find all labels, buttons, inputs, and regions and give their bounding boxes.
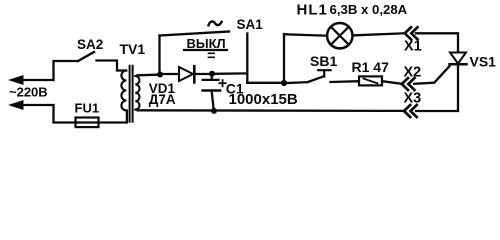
thyristor VS1 cathode lead	[457, 64, 459, 111]
wire node A riser to SA1	[158, 36, 160, 75]
svg-text:R1 47: R1 47	[352, 59, 390, 75]
svg-text:6,3В x 0,28А: 6,3В x 0,28А	[330, 2, 408, 17]
wire node B to SA1 riser	[215, 72, 247, 75]
transformer TV1 primary winding	[117, 71, 126, 111]
thyristor VS1 cathode bar	[450, 63, 467, 66]
svg-text:SA2: SA2	[77, 37, 103, 52]
capacitor C1 top lead	[211, 74, 213, 79]
wire X1 to VS1 anode	[416, 33, 458, 52]
wire diode to node B	[194, 73, 210, 75]
wire secondary top to node A	[138, 73, 161, 76]
wire riser corner to lamp	[284, 34, 327, 35]
wire node A to diode	[163, 73, 179, 75]
resistor R1 body	[359, 76, 382, 85]
switch SA2 blade	[78, 52, 94, 61]
svg-text:TV1: TV1	[120, 41, 146, 57]
pushbutton SB1 blade	[308, 76, 324, 82]
svg-text:1000x15В: 1000x15В	[229, 91, 298, 108]
svg-text:X3: X3	[404, 91, 422, 107]
capacitor C1 plus sign	[219, 80, 225, 86]
node C junction dot	[281, 80, 287, 86]
mains arrow bottom	[8, 100, 24, 110]
transformer TV1 secondary winding	[135, 76, 139, 110]
connector X2 chevrons	[402, 78, 415, 90]
connector X1 chevrons	[405, 27, 418, 39]
diode VD1 cathode bar	[193, 66, 196, 82]
wire mains bottom lead to fuse	[22, 105, 76, 123]
thyristor VS1 gate lead	[414, 66, 449, 84]
wire lamp to connector X1	[353, 33, 405, 35]
svg-text:X2: X2	[404, 65, 422, 81]
wire R1 to connector X2	[382, 81, 402, 84]
wire X3 to VS1 cathode	[416, 110, 458, 112]
switch SA2 fixed contact	[97, 61, 127, 71]
diode VD1 triangle	[179, 67, 193, 81]
rail junction dot C1	[211, 108, 217, 114]
svg-text:X1: X1	[404, 39, 422, 55]
lamp HL1 circle	[327, 23, 352, 48]
svg-text:FU1: FU1	[75, 101, 100, 116]
svg-text:Д7А: Д7А	[149, 92, 176, 107]
pushbutton SB1 right contact	[331, 80, 360, 83]
thyristor VS1 triangle	[450, 53, 466, 64]
capacitor C1 bottom lead	[212, 92, 214, 111]
transformer TV1 core	[130, 66, 133, 122]
wire fuse to transformer primary bottom	[98, 111, 127, 123]
lamp HL1 cross	[331, 27, 349, 45]
switch SA1 right contact riser	[246, 34, 248, 83]
label ~ (AC position)	[209, 21, 222, 25]
capacitor C1 top plate	[203, 79, 219, 81]
fuse FU1	[76, 121, 98, 123]
svg-text:SA1: SA1	[237, 17, 264, 32]
svg-text:SB1: SB1	[310, 53, 337, 69]
switch SA1 blade	[160, 32, 230, 36]
pushbutton SB1 actuator	[318, 70, 330, 76]
pushbutton SB1 left lead	[287, 81, 307, 84]
bottom rail wire	[138, 109, 405, 112]
wire lamp branch riser	[283, 34, 285, 83]
node A junction dot	[157, 72, 163, 78]
svg-text:HL1: HL1	[297, 2, 328, 19]
mains arrow top	[8, 75, 24, 85]
resistor R1 power mark	[364, 79, 378, 84]
node B junction dot	[209, 71, 215, 77]
svg-text:VS1: VS1	[470, 54, 497, 70]
wire SA1 riser corner to node C	[247, 82, 284, 84]
capacitor C1 bottom plate	[203, 89, 220, 92]
svg-text:=: =	[207, 49, 215, 65]
svg-text:~220В: ~220В	[9, 85, 48, 100]
connector X3 chevrons	[404, 105, 417, 117]
wire mains top lead to SA2 pivot	[22, 61, 78, 80]
